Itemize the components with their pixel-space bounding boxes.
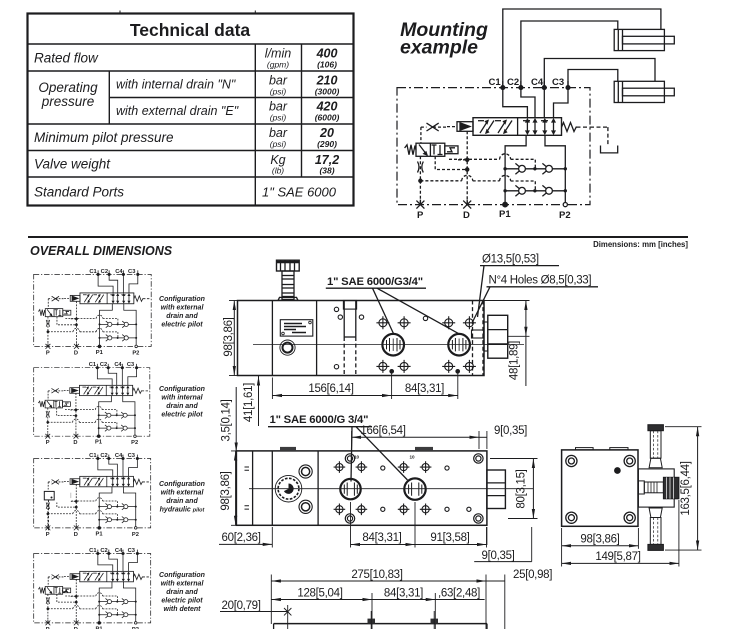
svg-text:Rated flow: Rated flow [34, 51, 99, 66]
hex plug right [487, 470, 506, 509]
check valve CV3 [515, 185, 525, 196]
callout N4 holes [489, 275, 592, 287]
dim 98[3.86] [229, 301, 238, 376]
svg-text:hydraulic pilot: hydraulic pilot [160, 507, 206, 514]
dim 98[3,86] [562, 528, 639, 567]
svg-text:C3: C3 [552, 77, 564, 88]
svg-text:(38): (38) [319, 166, 334, 176]
svg-text:Standard Ports: Standard Ports [34, 185, 124, 200]
heading: Mounting example [400, 19, 488, 59]
svg-text:(6000): (6000) [315, 113, 340, 123]
svg-text:,63[2,48]: ,63[2,48] [438, 587, 480, 599]
label 1" SAE 6000/G 3/4" [270, 414, 369, 426]
svg-text:C4: C4 [531, 77, 544, 88]
svg-text:98[3,86]: 98[3,86] [220, 471, 232, 510]
svg-text:C2: C2 [507, 77, 519, 88]
svg-text:48[1,89]: 48[1,89] [509, 341, 521, 380]
dim 149[5,87] [562, 500, 679, 567]
symmetry marks [245, 467, 250, 509]
svg-text:84[3,31]: 84[3,31] [405, 383, 444, 395]
bolt pins on bottom edge [368, 611, 439, 629]
svg-text:20: 20 [319, 126, 334, 140]
svg-text:l/min: l/min [265, 47, 291, 61]
hex plug right [484, 315, 508, 358]
port 2 (SAE) [448, 334, 470, 356]
svg-text:pressure: pressure [41, 94, 95, 109]
wires nodes to valve ports [503, 88, 528, 118]
svg-text:128[5,04]: 128[5,04] [297, 587, 342, 599]
check valve block rails [505, 135, 565, 204]
throttle X1 [421, 123, 447, 131]
crosshair holes [334, 461, 432, 515]
dim 91[3,58] [415, 527, 487, 548]
pilot valve V2 [405, 143, 458, 156]
svg-text:(gpm): (gpm) [267, 60, 289, 70]
svg-text:N°4 Holes Ø8,5[0,33]: N°4 Holes Ø8,5[0,33] [489, 275, 592, 287]
node C2 [519, 86, 523, 90]
svg-text:(psi): (psi) [270, 139, 287, 149]
config schematic 2: internal drain + electric pilot [34, 362, 150, 446]
port 1 (SAE) [382, 334, 404, 356]
svg-text:Valve weight: Valve weight [34, 157, 111, 172]
dim 9[0,35] bottom [474, 527, 532, 562]
lower solenoid tube [648, 508, 664, 550]
svg-text:10: 10 [410, 455, 416, 460]
wire C3 to cylinder 2 cap end [568, 70, 618, 88]
svg-text:Ø13,5[0,53]: Ø13,5[0,53] [482, 253, 539, 265]
hydraulic pilot variant patch [37, 490, 71, 532]
dim 9[0,35] top [479, 431, 487, 449]
crosshair holes bottom row [376, 360, 476, 373]
body outline [562, 448, 638, 527]
node C1 [501, 86, 505, 90]
config text 2 [159, 386, 205, 419]
svg-text:drain and: drain and [166, 589, 198, 596]
section divider line [28, 236, 688, 238]
connector stack [638, 477, 679, 499]
wire to port P [419, 179, 422, 204]
drain from main spring to tank [577, 126, 591, 128]
port P [416, 200, 424, 209]
callout dia 13,5 [482, 253, 539, 265]
port 1 top [340, 479, 360, 499]
wire C1 to cylinder 1 rod end [503, 9, 661, 88]
node stubs [503, 81, 568, 88]
check valve CV1 [515, 163, 525, 174]
small holes [334, 307, 427, 369]
port labels [417, 209, 571, 221]
svg-text:9[0,35]: 9[0,35] [494, 425, 527, 437]
node C3 [566, 86, 570, 90]
svg-text:(290): (290) [317, 139, 337, 149]
centerline [249, 488, 533, 490]
top tabs [280, 447, 433, 451]
pilot line to check block row 1 [449, 154, 535, 169]
wire throttle to pilot valve [420, 127, 422, 143]
svg-text:drain and: drain and [166, 498, 198, 505]
dim 25[0,98] [486, 575, 505, 629]
node labels [489, 77, 565, 88]
wire C2 to cylinder 1 cap end [521, 21, 618, 88]
name plate [280, 320, 313, 336]
centerline [253, 344, 524, 346]
svg-text:149[5,87]: 149[5,87] [595, 551, 640, 563]
svg-text:(lb): (lb) [272, 166, 284, 176]
cylinder 1 [614, 29, 674, 50]
dim 98[3,86] left [231, 451, 256, 525]
technical data table [28, 11, 354, 206]
pilot bolts [299, 465, 312, 513]
pilot cover knob [275, 475, 302, 502]
upper solenoid tube [648, 425, 664, 468]
svg-text:electric pilot: electric pilot [161, 598, 203, 605]
svg-text:example: example [400, 37, 478, 59]
svg-text:bar: bar [269, 126, 288, 140]
svg-text:Technical data: Technical data [130, 20, 251, 40]
svg-text:Configuration: Configuration [159, 386, 205, 393]
config text 4 [159, 572, 205, 613]
left bolt column [343, 301, 356, 338]
svg-text:with external drain "E": with external drain "E" [116, 104, 239, 118]
port D [463, 200, 471, 209]
crosshair holes top row [376, 316, 476, 329]
svg-text:98[3,86]: 98[3,86] [223, 317, 235, 356]
body outline [236, 451, 487, 525]
svg-text:Configuration: Configuration [159, 296, 205, 303]
dim 163,5[6,44] [665, 427, 702, 550]
corner bolts [566, 455, 636, 523]
svg-text:400: 400 [316, 47, 338, 61]
junction dots in check block [503, 167, 567, 192]
right bolt column (dashed) [473, 301, 484, 376]
dim 166[6,54] [352, 431, 479, 449]
svg-text:bar: bar [269, 74, 288, 88]
dim 84[3,31] [372, 593, 435, 629]
svg-text:1" SAE 6000/G 3/4": 1" SAE 6000/G 3/4" [270, 414, 369, 426]
svg-text:electric pilot: electric pilot [161, 322, 203, 329]
svg-text:166[6,54]: 166[6,54] [360, 425, 405, 437]
corner bolts [345, 454, 483, 523]
wire C4 to cylinder 2 rod end [544, 59, 655, 88]
dim 128[5,04] [271, 593, 372, 629]
svg-text:with internal: with internal [161, 395, 203, 402]
check valve CV4 [542, 185, 552, 196]
svg-text:60[2,36]: 60[2,36] [222, 532, 261, 544]
svg-text:with detent: with detent [164, 606, 202, 613]
body outline [238, 301, 485, 376]
svg-text:156[6,14]: 156[6,14] [308, 383, 353, 395]
bottom body top edge [274, 624, 487, 629]
throttle X2 below pilot valve [418, 156, 424, 181]
dim 156[6,14] [272, 373, 391, 399]
drain line to tank [590, 127, 618, 153]
dim 20[0,79] [220, 605, 291, 629]
node C4 [542, 86, 546, 90]
svg-text:Minimum pilot pressure: Minimum pilot pressure [34, 130, 174, 145]
svg-text:with external: with external [161, 581, 205, 588]
svg-text:20[0,79]: 20[0,79] [222, 600, 261, 612]
svg-text:25[0,98]: 25[0,98] [513, 569, 552, 581]
dim 41[1,61] [258, 376, 260, 426]
svg-text:(3000): (3000) [315, 87, 340, 97]
small holes [381, 466, 471, 512]
breather cap assembly [277, 260, 300, 300]
svg-text:Configuration: Configuration [159, 481, 205, 488]
svg-text:D: D [463, 210, 470, 221]
dim 63[2,48] [435, 599, 484, 601]
svg-text:1" SAE 6000/G3/4": 1" SAE 6000/G3/4" [327, 276, 423, 288]
svg-text:P1: P1 [499, 209, 511, 220]
detent glyph [62, 591, 68, 593]
boundary dash-dot box [397, 88, 590, 205]
svg-text:bar: bar [269, 100, 288, 114]
config schematic 3: external drain + hydraulic pilot [34, 453, 151, 538]
config text 1 [159, 296, 205, 329]
dim 84[3,31] [390, 370, 459, 399]
port 2 top [404, 478, 425, 499]
svg-text:drain and: drain and [166, 313, 198, 320]
svg-text:with internal drain "N": with internal drain "N" [116, 78, 236, 92]
svg-text:10: 10 [354, 455, 360, 460]
dim 84[3,31] bottom [351, 502, 416, 548]
drain wires to port D [435, 131, 469, 204]
svg-text:drain and: drain and [166, 403, 198, 410]
dim 48[1,89] [484, 301, 530, 387]
svg-text:41[1,61]: 41[1,61] [243, 383, 255, 422]
svg-text:P: P [417, 210, 424, 221]
svg-text:Operating: Operating [38, 80, 98, 95]
dim 60[2,36] [219, 527, 272, 548]
svg-text:OVERALL DIMENSIONS: OVERALL DIMENSIONS [30, 244, 173, 258]
config schematic 1: external drain + electric pilot [34, 269, 151, 357]
svg-text:(106): (106) [317, 60, 337, 70]
svg-text:C1: C1 [489, 77, 502, 88]
svg-text:Dimensions: mm [inches]: Dimensions: mm [inches] [593, 240, 688, 249]
tiny 10 marks [354, 455, 415, 460]
svg-text:3,5[0,14]: 3,5[0,14] [221, 399, 233, 441]
svg-text:91[3,58]: 91[3,58] [430, 532, 469, 544]
label 1" SAE 6000/G3/4" [327, 276, 423, 288]
config text 3 [159, 481, 205, 514]
svg-text:(psi): (psi) [270, 113, 287, 123]
svg-text:9[0,35]: 9[0,35] [482, 550, 515, 562]
pilot line to check block row 2 [420, 175, 535, 190]
svg-text:98[3,86]: 98[3,86] [580, 534, 619, 546]
dim 80[3,15] [490, 459, 538, 519]
directional valve U1 [473, 118, 562, 136]
svg-text:275[10,83]: 275[10,83] [351, 569, 402, 581]
pilot solenoid on valve [447, 122, 473, 132]
svg-text:with external: with external [161, 305, 205, 312]
port P1 [503, 202, 508, 207]
svg-text:Configuration: Configuration [159, 572, 205, 579]
svg-text:P2: P2 [559, 210, 571, 221]
table text [34, 20, 339, 200]
plug dot [615, 468, 620, 473]
svg-text:163,5[6,44]: 163,5[6,44] [680, 461, 692, 515]
solenoid manifold side [638, 469, 674, 507]
svg-text:1" SAE 6000: 1" SAE 6000 [262, 185, 337, 200]
pilot knob [280, 340, 295, 355]
svg-text:84[3,31]: 84[3,31] [384, 587, 423, 599]
svg-text:210: 210 [316, 74, 338, 88]
svg-text:(psi): (psi) [270, 87, 287, 97]
config schematic 4: external drain + electric pilot + detent [34, 548, 151, 629]
svg-text:80[3,15]: 80[3,15] [516, 469, 528, 508]
cylinder 2 [614, 81, 674, 102]
svg-text:with external: with external [161, 490, 205, 497]
dim 3,5[0,14] [235, 387, 237, 452]
port P2 [563, 203, 567, 207]
spring on valve [562, 123, 577, 132]
dim 275[10,83] [271, 575, 486, 629]
check valve CV2 [542, 163, 552, 174]
svg-text:420: 420 [316, 100, 338, 114]
svg-text:84[3,31]: 84[3,31] [362, 532, 401, 544]
svg-text:electric pilot: electric pilot [161, 412, 203, 419]
